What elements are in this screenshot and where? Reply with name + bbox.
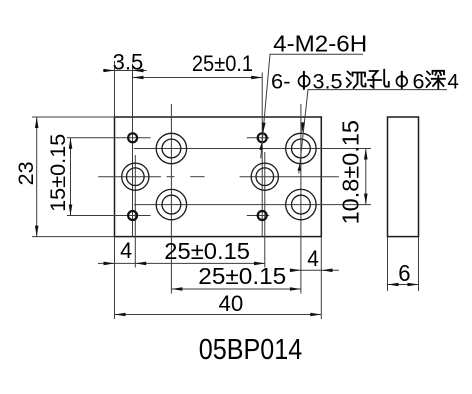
dim right 4 line bbox=[290, 269, 339, 271]
svg-text:40: 40 bbox=[219, 291, 244, 316]
vertical extension side view left bbox=[387, 237, 389, 291]
row2 arrows bbox=[171, 287, 182, 291]
middle port hole left bbox=[122, 163, 149, 190]
dim 3.5 arrows (outside, pointing inward) bbox=[104, 69, 115, 73]
vertical centerline M2 column left bbox=[132, 64, 134, 237]
centerline row counterbore top / extension for 10.8 dim bbox=[134, 148, 371, 150]
counterbore hole top-right bbox=[286, 133, 316, 163]
svg-text:25±0.1: 25±0.1 bbox=[192, 51, 253, 76]
svg-text:23: 23 bbox=[14, 161, 38, 185]
counterbore hole bottom-right bbox=[286, 189, 316, 219]
dim 10.8±0.15 line bbox=[365, 149, 367, 205]
side view plate outline bbox=[388, 117, 419, 237]
dim 23 line bbox=[36, 117, 38, 237]
dim 15±0.15 line bbox=[70, 138, 72, 216]
M2 tapped hole top-left bbox=[128, 133, 137, 142]
M2 tapped hole top-right bbox=[258, 133, 267, 142]
svg-text:3.5: 3.5 bbox=[313, 69, 343, 93]
6 arrows bbox=[388, 283, 399, 287]
row1 arrows bbox=[104, 262, 115, 266]
svg-text:25±0.15: 25±0.15 bbox=[164, 238, 250, 264]
dim row2 25±0.15 line bbox=[171, 288, 301, 290]
vertical centerline middle hole left bbox=[134, 155, 136, 268]
svg-text:3.5: 3.5 bbox=[113, 50, 144, 75]
svg-text:6: 6 bbox=[413, 69, 425, 93]
vertical centerline counterbore column left bbox=[170, 104, 172, 294]
15 arrows bbox=[69, 138, 73, 149]
dim 25±0.1 line bbox=[133, 77, 263, 79]
dim 40 line bbox=[115, 314, 322, 316]
dim 6 line bbox=[388, 284, 419, 286]
svg-text:4: 4 bbox=[447, 69, 458, 93]
kanji 深 bbox=[426, 71, 445, 89]
vertical extension side view right bbox=[418, 237, 420, 291]
vertical centerline middle hole right bbox=[264, 152, 266, 268]
kanji 孔 bbox=[368, 70, 389, 88]
dim 3.5 line bbox=[103, 70, 147, 72]
vertical extension left edge (top, for 3.5) bbox=[114, 61, 116, 117]
chain centerline middle row bbox=[98, 176, 338, 178]
svg-text:6-: 6- bbox=[271, 69, 291, 93]
middle port hole right bbox=[251, 163, 278, 190]
horizontal extension for 23 bottom bbox=[32, 236, 115, 238]
dim row1 line (4 and 25±0.15) bbox=[98, 262, 265, 264]
svg-text:10.8±0.15: 10.8±0.15 bbox=[338, 120, 364, 224]
M2 tapped hole bottom-left bbox=[128, 211, 137, 220]
dim 25±0.1 arrows bbox=[133, 76, 144, 80]
dimension texts bbox=[14, 50, 410, 316]
horizontal extension for 23 top bbox=[32, 116, 115, 118]
centerline row M2 bottom bbox=[67, 215, 269, 217]
10.8 arrows bbox=[364, 149, 368, 160]
svg-text:25±0.15: 25±0.15 bbox=[198, 263, 286, 289]
M2 tapped hole bottom-right bbox=[258, 211, 267, 220]
phi symbol 2 bbox=[396, 71, 407, 89]
annotation 6-φ3.5沉孔φ6深4 bbox=[271, 69, 459, 93]
counterbore hole bottom-left bbox=[156, 189, 186, 219]
vertical extension right edge (bottom) bbox=[320, 237, 322, 319]
svg-text:4: 4 bbox=[120, 238, 132, 263]
centerline row M2 top bbox=[67, 137, 269, 139]
svg-text:4: 4 bbox=[307, 246, 319, 271]
leader 6-phi3.5 counterbore bbox=[299, 90, 447, 174]
40 arrows bbox=[115, 313, 126, 317]
centerline row counterbore bottom / extension for 10.8 dim bbox=[134, 204, 371, 206]
phi symbol 1 bbox=[299, 71, 310, 90]
front view plate outline bbox=[115, 117, 322, 237]
leader 4-M2-6H bbox=[261, 54, 363, 158]
vertical centerline counterbore column right bbox=[300, 104, 302, 294]
kanji 沉 bbox=[347, 72, 366, 89]
svg-text:15±0.15: 15±0.15 bbox=[45, 134, 70, 212]
counterbore hole top-left bbox=[156, 133, 186, 163]
right 4 arrows bbox=[290, 269, 301, 273]
svg-text:4-M2-6H: 4-M2-6H bbox=[273, 30, 367, 56]
vertical centerline M2 column right bbox=[261, 73, 263, 237]
svg-text:05BP014: 05BP014 bbox=[199, 334, 303, 366]
svg-text:6: 6 bbox=[398, 260, 410, 286]
arrowheads bbox=[35, 69, 419, 317]
vertical extension left edge (bottom, for 4/40) bbox=[114, 237, 116, 319]
23 arrows bbox=[35, 117, 39, 128]
